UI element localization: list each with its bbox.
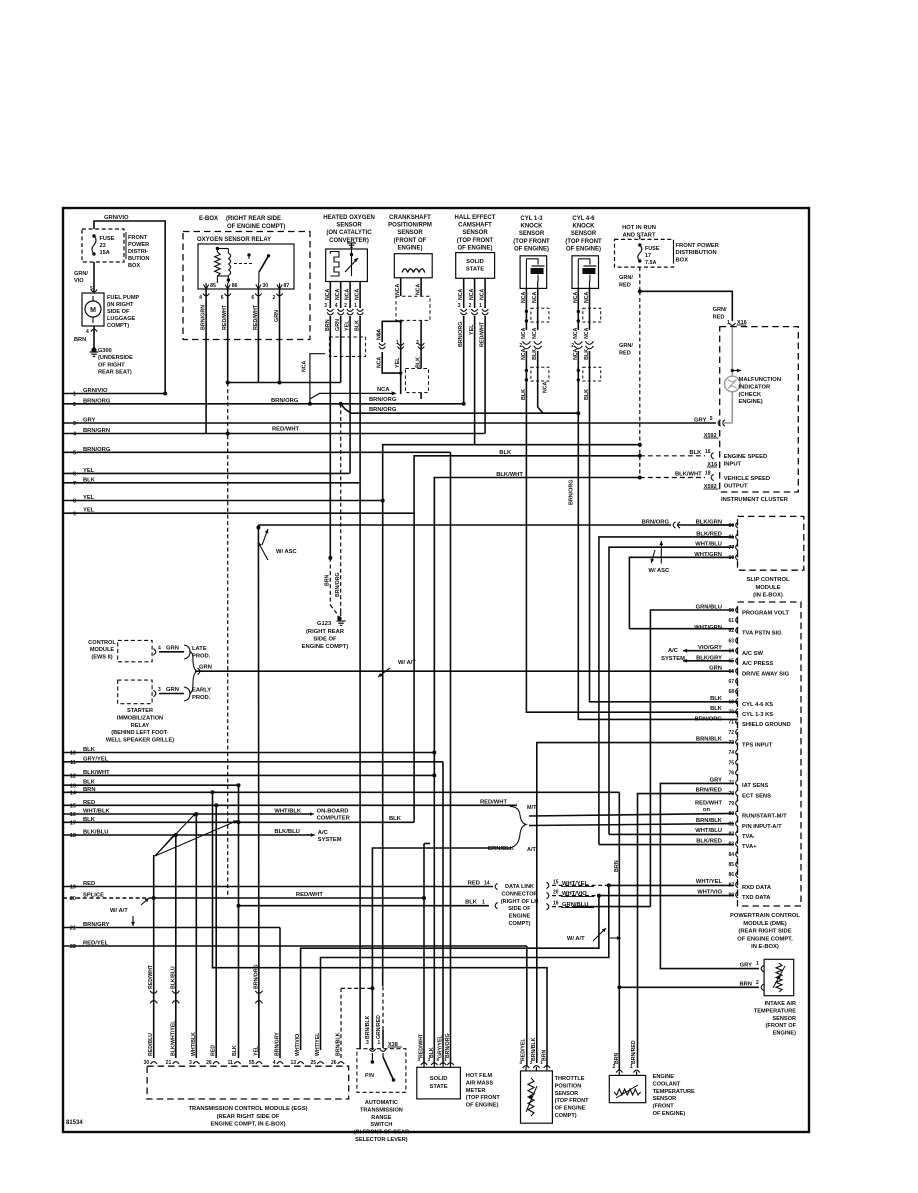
svg-text:GRN: GRN xyxy=(274,310,280,322)
wire WHT/VIO pcm88 xyxy=(599,895,734,897)
svg-text:87: 87 xyxy=(284,283,290,289)
svg-text:NCA: NCA xyxy=(302,361,308,372)
svg-text:21: 21 xyxy=(70,926,76,932)
svg-text:RXD DATA: RXD DATA xyxy=(742,885,772,891)
svg-text:WHT/VIO: WHT/VIO xyxy=(295,1034,301,1056)
hall wires xyxy=(463,278,465,308)
svg-text:GRN: GRN xyxy=(166,646,179,652)
svg-text:RED: RED xyxy=(713,315,725,321)
svg-text:LUGGAGE: LUGGAGE xyxy=(107,316,136,322)
svg-text:(TOP FRONT: (TOP FRONT xyxy=(565,239,602,245)
meter pin RED/WHT xyxy=(421,1063,427,1065)
svg-text:RELAY: RELAY xyxy=(131,723,150,729)
NCA stub xyxy=(310,354,325,399)
wire BLK/RED pcm83 xyxy=(599,844,734,846)
svg-text:TRANSMISSION: TRANSMISSION xyxy=(360,1107,403,1113)
wire 14 BRN xyxy=(63,791,619,793)
w/ a/t option arrows xyxy=(155,813,196,857)
svg-text:RED: RED xyxy=(83,881,95,887)
svg-text:3: 3 xyxy=(73,421,76,427)
svg-text:(CHECK: (CHECK xyxy=(739,392,762,398)
pcm pin 81 xyxy=(736,820,738,826)
wire 17 riser xyxy=(420,814,422,822)
wire YEL crank lower xyxy=(400,373,402,394)
svg-text:12: 12 xyxy=(70,774,76,780)
svg-text:TVA+: TVA+ xyxy=(742,844,757,850)
svg-text:GRY: GRY xyxy=(694,418,706,424)
svg-text:17: 17 xyxy=(645,253,651,259)
wire WHT/YEL to tcm25 xyxy=(321,885,609,1050)
svg-text:PROGRAM VOLT: PROGRAM VOLT xyxy=(742,610,789,616)
instrument cluster xyxy=(720,327,799,492)
inline connector crank 2 xyxy=(405,369,428,393)
wire 13 BLK xyxy=(63,784,239,786)
svg-text:IAT SENS: IAT SENS xyxy=(742,783,768,789)
svg-text:NCA: NCA xyxy=(532,327,538,338)
svg-text:METER: METER xyxy=(466,1088,486,1094)
svg-text:84: 84 xyxy=(728,852,734,858)
svg-text:STATE: STATE xyxy=(466,267,484,273)
svg-text:SELECTOR LEVER): SELECTOR LEVER) xyxy=(355,1137,408,1143)
pcm pin 75 xyxy=(736,759,738,765)
wire RED/WHT relay pin30 xyxy=(257,289,259,383)
svg-text:BRN/ORG: BRN/ORG xyxy=(369,407,397,413)
svg-text:6: 6 xyxy=(251,295,254,301)
svg-text:2: 2 xyxy=(756,980,759,986)
svg-text:BUTION: BUTION xyxy=(128,256,149,262)
wire GRN/RED to instrument cluster xyxy=(640,291,733,321)
svg-text:TVA-: TVA- xyxy=(742,834,755,840)
svg-text:55: 55 xyxy=(249,1060,255,1066)
svg-text:NCA: NCA xyxy=(532,292,538,303)
dlc pins right 15 20 16 xyxy=(546,882,548,888)
svg-text:POSITION: POSITION xyxy=(555,1083,582,1089)
svg-text:GRN/RED: GRN/RED xyxy=(376,1015,382,1039)
svg-text:BLK/BLU: BLK/BLU xyxy=(170,966,176,989)
svg-text:BLK: BLK xyxy=(689,450,702,456)
wire BRN/BLK to tps xyxy=(536,743,538,1067)
svg-text:NCA: NCA xyxy=(416,284,422,295)
svg-text:BLK: BLK xyxy=(232,1045,238,1056)
svg-text:(IN E-BOX): (IN E-BOX) xyxy=(753,593,783,599)
svg-text:BRN/ORG: BRN/ORG xyxy=(569,480,575,505)
svg-text:8: 8 xyxy=(73,499,76,505)
wire vehicle speed feed xyxy=(434,478,640,776)
svg-text:TEMPERATURE: TEMPERATURE xyxy=(653,1089,695,1095)
svg-text:BLK: BLK xyxy=(465,900,478,906)
svg-text:4: 4 xyxy=(158,646,161,652)
svg-text:NCA: NCA xyxy=(345,289,351,300)
svg-text:INTAKE AIR: INTAKE AIR xyxy=(765,1001,796,1007)
svg-text:AUTOMATIC: AUTOMATIC xyxy=(365,1100,398,1106)
svg-text:DISTRIBUTION: DISTRIBUTION xyxy=(676,250,717,256)
svg-text:(IN RIGHT: (IN RIGHT xyxy=(107,302,134,308)
svg-text:INSTRUMENT CLUSTER: INSTRUMENT CLUSTER xyxy=(721,497,789,503)
wire 21 BRN/GRY xyxy=(63,927,280,929)
inline connector crank 1 xyxy=(396,296,430,320)
svg-text:NCA: NCA xyxy=(458,289,464,300)
svg-text:68: 68 xyxy=(728,689,734,695)
svg-text:GRY: GRY xyxy=(740,963,752,969)
svg-text:WHT/BLK: WHT/BLK xyxy=(83,809,111,815)
svg-text:BRN/BLK: BRN/BLK xyxy=(365,1015,371,1039)
svg-text:CYL 4-6: CYL 4-6 xyxy=(572,216,595,222)
svg-text:INPUT: INPUT xyxy=(724,461,742,467)
svg-text:YEL: YEL xyxy=(395,357,401,368)
svg-text:STATE: STATE xyxy=(430,1084,448,1090)
svg-text:RED/WHT: RED/WHT xyxy=(480,800,508,806)
svg-text:NCA: NCA xyxy=(395,284,401,295)
wire GRN/BLU to pcm60 xyxy=(650,610,734,907)
tcm pin 26 RED xyxy=(213,1062,219,1064)
svg-text:BRN/GRY: BRN/GRY xyxy=(83,922,110,928)
svg-text:MODULE (DME): MODULE (DME) xyxy=(743,921,787,927)
svg-text:BRN/ORG: BRN/ORG xyxy=(271,398,299,404)
svg-text:MODULE: MODULE xyxy=(90,647,115,653)
wire BLK pcm70 xyxy=(526,711,734,713)
svg-text:RED/WHT: RED/WHT xyxy=(148,964,154,989)
svg-text:NCA: NCA xyxy=(573,292,579,303)
svg-text:30: 30 xyxy=(144,1060,150,1066)
svg-text:SIDE OF: SIDE OF xyxy=(508,906,531,912)
svg-text:PROD.: PROD. xyxy=(192,695,211,701)
svg-text:GRN/: GRN/ xyxy=(74,271,88,277)
svg-text:SIDE OF: SIDE OF xyxy=(107,309,130,315)
svg-text:SENSOR: SENSOR xyxy=(772,1016,796,1022)
border frame xyxy=(63,208,809,1132)
svg-text:16: 16 xyxy=(70,812,76,818)
svg-text:EARLY: EARLY xyxy=(192,688,211,694)
svg-text:70: 70 xyxy=(728,710,734,716)
tps pin 3 RED/YEL xyxy=(523,1066,529,1068)
svg-text:GRN/VIO: GRN/VIO xyxy=(83,388,108,394)
svg-text:WHT/VIO: WHT/VIO xyxy=(697,889,722,895)
svg-text:ENGINE): ENGINE) xyxy=(397,245,422,251)
svg-text:FUSE: FUSE xyxy=(100,236,115,242)
wire BRN/BLK a/t from range switch xyxy=(372,848,510,1050)
wire 16 WHT/BLK xyxy=(63,813,311,815)
svg-text:BOX: BOX xyxy=(676,257,689,263)
svg-text:RANGE: RANGE xyxy=(371,1115,391,1121)
wire GRN to relay xyxy=(340,316,342,383)
svg-text:BRN/BLK: BRN/BLK xyxy=(531,1037,537,1061)
svg-text:SENSOR: SENSOR xyxy=(571,231,597,237)
slip control module xyxy=(738,516,804,570)
pcm pin 67 xyxy=(736,678,738,684)
pcm pin 82 xyxy=(736,831,738,837)
heater element xyxy=(330,252,339,277)
wire BRN/BLK dashed to tcm26 xyxy=(340,988,342,1058)
svg-text:POWER: POWER xyxy=(128,242,149,248)
svg-text:HALL EFFECT: HALL EFFECT xyxy=(455,215,496,221)
svg-text:RED/WHT: RED/WHT xyxy=(695,800,723,806)
pcm pin 80 xyxy=(736,810,738,816)
inline connector C-HO2S xyxy=(329,337,365,357)
svg-text:NCA: NCA xyxy=(543,382,549,393)
svg-text:85: 85 xyxy=(210,283,216,289)
svg-text:67: 67 xyxy=(728,679,734,685)
throttle position sensor xyxy=(521,1071,553,1123)
svg-text:A/C PRESS: A/C PRESS xyxy=(742,661,773,667)
relay switch xyxy=(247,253,250,256)
svg-text:ENGINE): ENGINE) xyxy=(739,399,763,405)
engine coolant temperature sensor xyxy=(609,1075,645,1102)
svg-text:(UNDERSIDE: (UNDERSIDE xyxy=(98,355,133,361)
pcm pin 73 xyxy=(736,739,738,745)
svg-text:RED: RED xyxy=(83,800,95,806)
svg-text:BLK: BLK xyxy=(416,357,422,368)
svg-text:18: 18 xyxy=(705,471,711,477)
wire 8 YEL xyxy=(63,500,383,502)
variable resistance arrow xyxy=(345,258,358,272)
svg-text:CRANKSHAFT: CRANKSHAFT xyxy=(389,215,431,221)
svg-text:BRN/ORG: BRN/ORG xyxy=(335,573,341,598)
pcm pin 87 xyxy=(736,881,738,887)
tcm pin 25 WHT/YEL xyxy=(317,1062,323,1064)
svg-text:A/T: A/T xyxy=(527,847,537,853)
svg-text:SENSOR: SENSOR xyxy=(336,223,362,229)
svg-text:THROTTLE: THROTTLE xyxy=(555,1076,585,1082)
svg-text:30: 30 xyxy=(262,283,268,289)
svg-text:SYSTEM: SYSTEM xyxy=(661,656,685,662)
pcm pin 85 xyxy=(736,861,738,867)
wire WHT/BLU to slip77 xyxy=(609,547,734,834)
svg-text:LATE: LATE xyxy=(192,646,207,652)
wire BRN dashed to G123 xyxy=(329,558,331,605)
wire 12 BLK/WHT xyxy=(63,774,434,776)
svg-text:(REAR RIGHT SIDE OF: (REAR RIGHT SIDE OF xyxy=(217,1114,280,1120)
tcm pin 3 WHT/BLK xyxy=(193,1062,199,1064)
relay connector early prod xyxy=(153,690,155,696)
pcm pin 78 xyxy=(736,790,738,796)
svg-text:BLK: BLK xyxy=(710,696,723,702)
meter pin BLK xyxy=(431,1063,437,1065)
svg-text:KNOCK: KNOCK xyxy=(573,224,596,230)
tcm pin 21 BLK/WHT/YEL xyxy=(173,1062,179,1064)
svg-text:76: 76 xyxy=(728,771,734,777)
svg-text:BLK/WHT: BLK/WHT xyxy=(675,472,702,478)
ews connector late prod xyxy=(153,649,155,655)
svg-text:15A: 15A xyxy=(100,250,110,256)
svg-text:4: 4 xyxy=(86,329,89,335)
svg-text:BLK: BLK xyxy=(499,450,512,456)
wire 17 BLK xyxy=(63,821,414,823)
wire 22 RED/YEL xyxy=(63,945,527,947)
svg-text:G123: G123 xyxy=(317,621,332,627)
svg-text:(REAR RIGHT SIDE: (REAR RIGHT SIDE xyxy=(738,929,791,935)
range switch contacts xyxy=(371,1060,375,1064)
svg-text:IN E-BOX): IN E-BOX) xyxy=(751,944,779,950)
svg-text:1: 1 xyxy=(354,303,357,309)
wire BLK to tcm11 xyxy=(238,785,240,1058)
svg-text:OF RIGHT: OF RIGHT xyxy=(98,362,125,368)
svg-text:(FRONT OF: (FRONT OF xyxy=(394,238,427,244)
svg-text:9: 9 xyxy=(73,511,76,517)
svg-text:GRN: GRN xyxy=(166,687,179,693)
svg-text:CYL 4-6 KS: CYL 4-6 KS xyxy=(742,702,773,708)
pcm pin 79 xyxy=(736,800,738,806)
ect pin 1 BRN/RED xyxy=(633,1070,639,1072)
svg-text:IMMOBILIZATION: IMMOBILIZATION xyxy=(117,715,163,721)
wire BRN/ORG to meter xyxy=(450,452,452,1064)
svg-text:P/N INPUT-A/T: P/N INPUT-A/T xyxy=(742,824,782,830)
wire 3 GRY xyxy=(63,422,716,424)
svg-text:OF ENGINE): OF ENGINE) xyxy=(566,246,601,252)
svg-text:FRONT: FRONT xyxy=(128,235,148,241)
tps pin 1 BRN xyxy=(544,1066,550,1068)
svg-text:CONNECTOR: CONNECTOR xyxy=(502,891,538,897)
intake air temperature sensor xyxy=(764,959,794,995)
wire RED to tcm26 xyxy=(215,805,217,1058)
svg-text:BLK: BLK xyxy=(83,780,96,786)
svg-text:MALFUNCTION: MALFUNCTION xyxy=(739,377,782,383)
svg-text:65: 65 xyxy=(728,659,734,665)
pcm pin 83 xyxy=(736,841,738,847)
svg-text:RED/WHT: RED/WHT xyxy=(222,304,228,330)
svg-text:(FRONT OF: (FRONT OF xyxy=(766,1023,797,1029)
svg-text:POSITION/RPM: POSITION/RPM xyxy=(388,223,432,229)
svg-text:6: 6 xyxy=(221,295,224,301)
svg-text:W/ A/T: W/ A/T xyxy=(567,936,585,942)
wire GRY/YEL to meter xyxy=(442,762,444,1064)
pcm pin 68 xyxy=(736,688,738,694)
svg-text:SWITCH: SWITCH xyxy=(370,1122,392,1128)
wire BLK crank lower xyxy=(420,393,422,399)
svg-text:2: 2 xyxy=(519,343,522,349)
dlc pin 1 BLK xyxy=(239,905,490,907)
svg-text:3: 3 xyxy=(458,303,461,309)
svg-text:NCA: NCA xyxy=(377,387,390,393)
svg-text:DRIVE AWAY SIG: DRIVE AWAY SIG xyxy=(742,671,790,677)
wire 18 BLK/BLU xyxy=(63,834,312,836)
wire 10 BLK xyxy=(63,752,434,754)
svg-text:1: 1 xyxy=(479,303,482,309)
svg-text:BRN/GRN: BRN/GRN xyxy=(83,428,110,434)
svg-text:POWERTRAIN CONTROL: POWERTRAIN CONTROL xyxy=(730,913,800,919)
pcm pin 84 xyxy=(736,851,738,857)
node heated O2 heater feed xyxy=(228,382,341,384)
svg-text:10: 10 xyxy=(70,751,76,757)
wire BRN/BLK tps to pcm73 xyxy=(537,743,734,1063)
svg-text:BLK/RED: BLK/RED xyxy=(696,838,722,844)
svg-text:26: 26 xyxy=(206,1060,212,1066)
svg-text:ENGINE SPEED: ENGINE SPEED xyxy=(724,454,768,460)
svg-text:SLIP CONTROL: SLIP CONTROL xyxy=(746,577,790,583)
svg-text:BLK: BLK xyxy=(389,816,402,822)
wire WHT/GRN to slip10 xyxy=(629,557,734,628)
relay pins 85 86 30 87 xyxy=(204,285,209,290)
wire 11 GRY/YEL xyxy=(63,761,443,763)
svg-text:VIO: VIO xyxy=(74,278,84,284)
powertrain control module DME xyxy=(738,602,802,906)
brace GRN merge xyxy=(190,652,197,694)
fuse F23 15A front power distribution box xyxy=(82,229,124,262)
svg-text:YEL: YEL xyxy=(83,508,95,514)
svg-text:2: 2 xyxy=(273,295,276,301)
svg-text:WELL SPEAKER GRILLE): WELL SPEAKER GRILLE) xyxy=(106,738,174,744)
svg-text:79: 79 xyxy=(728,801,734,807)
svg-text:SYSTEM: SYSTEM xyxy=(318,837,342,843)
svg-text:COMPT): COMPT) xyxy=(107,323,129,329)
svg-text:ENGINE: ENGINE xyxy=(653,1074,675,1080)
meter pin BRN/ORG xyxy=(447,1063,453,1065)
wire BRN to tps xyxy=(213,792,548,1067)
wire BLK pcm69 xyxy=(590,701,735,703)
svg-text:GRN/: GRN/ xyxy=(713,307,727,313)
wire GRN drive away xyxy=(195,670,734,672)
pcm pin 72 xyxy=(736,729,738,735)
wire WHT/BLK to tcm3 xyxy=(195,814,197,1058)
svg-text:1: 1 xyxy=(378,1040,381,1046)
svg-text:YEL: YEL xyxy=(83,495,95,501)
svg-text:NCA: NCA xyxy=(521,292,527,303)
svg-text:75: 75 xyxy=(728,760,734,766)
svg-text:(RIGHT REAR SIDE: (RIGHT REAR SIDE xyxy=(226,216,281,222)
svg-text:11: 11 xyxy=(70,760,76,766)
svg-text:63: 63 xyxy=(728,638,734,644)
wire 7 BLK xyxy=(63,482,360,484)
svg-text:BLK: BLK xyxy=(83,817,96,823)
svg-text:15: 15 xyxy=(70,804,76,810)
wire RED/WHT dashed option xyxy=(227,383,229,899)
malfunction indicator lamp xyxy=(731,327,733,376)
svg-text:NCA: NCA xyxy=(521,327,527,338)
pcm pin 76 xyxy=(736,770,738,776)
svg-text:SENSOR: SENSOR xyxy=(462,230,488,236)
tcm pin 4 BRN/GRY xyxy=(277,1062,283,1064)
svg-text:3: 3 xyxy=(324,303,327,309)
svg-text:NCA: NCA xyxy=(469,289,475,300)
wire BRN/GRY to tcm4 xyxy=(279,928,281,1059)
svg-text:14: 14 xyxy=(484,881,490,887)
svg-text:72: 72 xyxy=(728,730,734,736)
svg-text:BRN/RED: BRN/RED xyxy=(631,1040,637,1064)
svg-text:RUN/START-M/T: RUN/START-M/T xyxy=(742,814,787,820)
svg-text:TPS INPUT: TPS INPUT xyxy=(742,743,773,749)
wire BLK engine speed input xyxy=(638,443,642,447)
sensor coil xyxy=(402,269,408,273)
svg-text:BRN/BLK: BRN/BLK xyxy=(488,846,515,852)
svg-text:GRN/: GRN/ xyxy=(619,275,633,281)
ground G123 xyxy=(337,616,341,620)
svg-text:on: on xyxy=(703,807,711,813)
svg-text:4: 4 xyxy=(273,1060,276,1066)
NCA bypass loop xyxy=(382,321,401,342)
wire RED/WHT to meter xyxy=(423,844,425,1065)
svg-text:STARTER: STARTER xyxy=(127,708,153,714)
svg-text:11: 11 xyxy=(228,1060,234,1066)
svg-text:22: 22 xyxy=(70,944,76,950)
svg-text:DATA LINK: DATA LINK xyxy=(505,884,534,890)
svg-text:GRY: GRY xyxy=(83,418,95,424)
svg-text:SENSOR: SENSOR xyxy=(653,1096,677,1102)
wire 4 BRN/GRN xyxy=(63,433,485,435)
junction wire1 xyxy=(163,392,167,396)
svg-text:7: 7 xyxy=(73,481,76,487)
svg-text:(EWS II): (EWS II) xyxy=(91,654,112,660)
wire 6 YEL xyxy=(63,472,350,474)
wire WHT/GRN to pcm62 xyxy=(629,628,734,630)
sensor ground xyxy=(347,242,356,244)
svg-text:13: 13 xyxy=(291,1060,297,1066)
wire WHT/BLU pcm82 xyxy=(609,833,734,835)
svg-text:SOLID: SOLID xyxy=(466,259,484,265)
svg-text:20: 20 xyxy=(553,890,559,896)
svg-text:5: 5 xyxy=(710,416,713,422)
svg-text:NCA: NCA xyxy=(355,289,361,300)
svg-text:COMPT): COMPT) xyxy=(508,921,530,927)
svg-text:WHT/BLU: WHT/BLU xyxy=(695,828,722,834)
